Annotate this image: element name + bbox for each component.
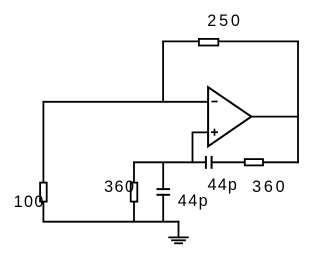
op-amp plus symbol <box>211 129 218 136</box>
wire: shunt cap branch upper <box>162 162 164 188</box>
wire: middle net (left of series cap) <box>134 161 206 163</box>
wire: op-amp output <box>251 116 298 118</box>
wire: 360-left branch vertical <box>133 162 135 221</box>
op-amp U1 <box>208 87 251 146</box>
capacitor 44p (series, horizontal) <box>206 156 212 169</box>
resistor 100 (left) <box>40 183 47 202</box>
wire: top feedback horizontal <box>163 40 298 42</box>
svg-text:100: 100 <box>14 193 44 211</box>
resistor 250 (feedback) <box>199 39 218 46</box>
wire: feedback vertical riser <box>162 41 164 101</box>
wire: left branch vertical (input to bottom net) <box>42 102 44 222</box>
wire: inverting input net (left to op-amp minus) <box>43 101 208 103</box>
resistor 360 (right, to output) <box>245 159 263 165</box>
op-amp minus symbol <box>211 101 217 103</box>
resistor 360 (left shunt) <box>131 183 138 202</box>
wire: right vertical (feedback to output and R2) <box>297 41 299 162</box>
ground <box>169 222 188 244</box>
svg-text:360: 360 <box>104 178 134 196</box>
svg-text:360: 360 <box>252 178 285 196</box>
wire: middle net (right of series cap) <box>212 161 298 163</box>
wire: bottom net <box>43 221 178 223</box>
wire: shunt cap branch lower <box>162 196 164 222</box>
svg-text:44p: 44p <box>208 176 237 194</box>
capacitor 44p (shunt, vertical) <box>157 189 171 195</box>
svg-text:250: 250 <box>207 12 240 30</box>
wire: non-inverting input L-segment <box>193 132 209 162</box>
svg-text:44p: 44p <box>178 192 208 210</box>
